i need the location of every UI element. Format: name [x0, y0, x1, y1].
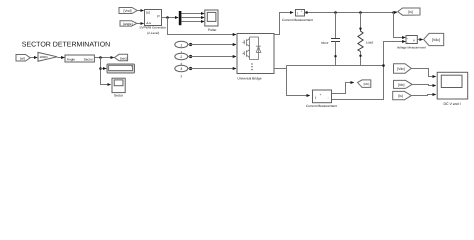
- scope Sector: [112, 78, 125, 97]
- scope Pulse: [205, 10, 218, 32]
- wire P output to demux: [162, 17, 179, 19]
- node A: [99, 56, 102, 59]
- wire top rail: [305, 12, 395, 14]
- scope DC V and I: [437, 72, 468, 106]
- display block: [107, 64, 135, 73]
- svg-text:∠u: ∠u: [146, 21, 151, 25]
- From tag wt: [16, 55, 30, 62]
- wire angle to SVPWM: [137, 23, 144, 25]
- wire sector out to goto: [94, 57, 113, 59]
- capacitor C1: [321, 13, 340, 66]
- svg-text:SECTOR DETERMINATION: SECTOR DETERMINATION: [22, 41, 110, 48]
- svg-text:DC V and I: DC V and I: [443, 102, 460, 106]
- svg-text:v: v: [413, 39, 415, 43]
- svg-text:-: -: [303, 11, 304, 15]
- wire Idc to scope in2: [412, 85, 436, 86]
- svg-text:-: -: [407, 41, 408, 45]
- From tag Idc2: [394, 80, 413, 88]
- svg-text:+: +: [320, 92, 322, 96]
- wire port1 to bridge A: [188, 44, 236, 46]
- wire vertical branch: [101, 58, 111, 85]
- svg-text:Angle: Angle: [67, 57, 75, 61]
- node port3: [189, 67, 192, 70]
- svg-text:Pulse: Pulse: [208, 28, 217, 32]
- svg-text:|u|: |u|: [146, 10, 150, 14]
- svg-text:33mF: 33mF: [321, 41, 329, 45]
- svg-text:[Is]: [Is]: [398, 94, 403, 98]
- node port1: [189, 43, 192, 46]
- svg-text:Current Measurement: Current Measurement: [282, 18, 313, 22]
- svg-text:[Idc]: [Idc]: [364, 82, 370, 86]
- wire bridge plus up to CM1: [274, 13, 293, 35]
- goto tag sec: [115, 54, 128, 60]
- wire bridge minus: [274, 66, 287, 69]
- port 2: [175, 53, 188, 66]
- dots more arms: [251, 63, 252, 64]
- node port2: [189, 55, 192, 58]
- wire VM1 out to goto Vdc: [417, 39, 423, 41]
- wire demux out 2: [181, 17, 204, 19]
- block U1 SVPWM Generator (2-Level): [139, 10, 165, 35]
- node load top: [359, 11, 362, 14]
- wire CM2 return to vminus vertical: [332, 42, 406, 100]
- block Angle-Sector: [65, 55, 94, 62]
- svg-text:Universal Bridge: Universal Bridge: [237, 76, 261, 80]
- svg-text:[wt]: [wt]: [20, 56, 25, 60]
- wire bottom rail: [287, 65, 384, 67]
- svg-text:[angle]: [angle]: [123, 22, 133, 26]
- From tag angle: [120, 21, 137, 26]
- wire port2 to bridge B: [188, 56, 236, 58]
- From tag Vref: [119, 8, 137, 14]
- wire port3 to bridge C: [188, 68, 236, 70]
- goto tag Is: [398, 8, 420, 15]
- svg-text:[Vdc]: [Vdc]: [397, 67, 405, 71]
- node B: [99, 67, 102, 70]
- node cap top: [334, 11, 337, 14]
- svg-text:1: 1: [180, 43, 182, 47]
- svg-text:Voltage Measurement: Voltage Measurement: [397, 45, 426, 49]
- wire Is to scope in3: [411, 95, 436, 96]
- goto tag Vdc: [424, 33, 444, 45]
- wire vm plus branch: [394, 13, 406, 38]
- svg-text:Sector: Sector: [114, 93, 124, 97]
- svg-text:2: 2: [180, 55, 182, 59]
- node vm plus: [392, 11, 395, 14]
- node rail-vminus junction: [382, 64, 385, 67]
- From tag Vdc: [394, 64, 412, 73]
- wire bridge minus down to CM2: [287, 69, 310, 96]
- load R1: [358, 13, 373, 66]
- port 1: [175, 41, 188, 54]
- wire to display: [101, 68, 107, 70]
- demux D1: [179, 11, 182, 25]
- svg-text:(2-Level): (2-Level): [147, 31, 159, 35]
- wire demux out 3: [181, 21, 204, 23]
- wire CM2 signal to goto Idc: [332, 83, 354, 94]
- igbt upper: [243, 39, 250, 47]
- svg-text:180/pi: 180/pi: [40, 55, 49, 59]
- wire demux out 1: [181, 13, 204, 15]
- svg-text:Sector: Sector: [84, 57, 94, 61]
- wire wt to gain: [30, 57, 37, 59]
- svg-text:Current Measurement: Current Measurement: [306, 104, 337, 108]
- svg-text:Load: Load: [366, 40, 373, 44]
- svg-text:[Is]: [Is]: [408, 10, 413, 14]
- voltage measurement VM1: [397, 36, 426, 50]
- wire gain to sector block: [57, 57, 64, 59]
- wire Vref to SVPWM: [137, 10, 143, 12]
- wire Vdc to scope in1: [411, 69, 436, 77]
- From tag Is2: [393, 91, 412, 99]
- port 3: [175, 65, 188, 78]
- svg-text:i: i: [315, 95, 316, 100]
- svg-text:3: 3: [180, 67, 182, 71]
- universal bridge U2: [237, 34, 274, 81]
- gain G1 180/pi: [38, 52, 57, 61]
- svg-text:3: 3: [180, 74, 182, 78]
- current measurement CM1: [282, 10, 313, 23]
- wire gate: down and right to bridge g: [168, 18, 237, 35]
- svg-text:[sec]: [sec]: [120, 56, 127, 60]
- svg-text:[Vref]: [Vref]: [124, 9, 132, 13]
- node on P wire: [166, 16, 169, 19]
- svg-text:SVPWM Generator: SVPWM Generator: [139, 25, 165, 29]
- leg wires: [250, 37, 259, 60]
- diode D: [256, 37, 261, 60]
- wire into goto Is: [394, 11, 398, 14]
- svg-text:[Vdc]: [Vdc]: [432, 38, 440, 42]
- svg-text:[Idc]: [Idc]: [398, 83, 404, 87]
- current measurement CM2: [306, 90, 337, 108]
- goto tag Idc: [358, 80, 371, 88]
- igbt lower: [243, 50, 250, 58]
